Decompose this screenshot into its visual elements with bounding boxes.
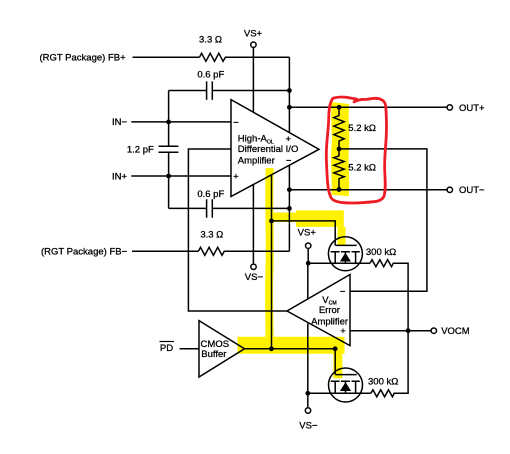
svg-text:IN−: IN− [112, 117, 128, 128]
svg-text:0.6 pF: 0.6 pF [197, 189, 224, 200]
svg-text:Buffer: Buffer [201, 349, 226, 360]
svg-text:3.3 Ω: 3.3 Ω [199, 35, 222, 46]
svg-text:3.3 Ω: 3.3 Ω [200, 230, 223, 241]
svg-text:VS+: VS+ [298, 228, 317, 239]
svg-text:−: − [286, 156, 292, 167]
svg-text:VS+: VS+ [244, 29, 263, 40]
svg-text:Differential I/O: Differential I/O [238, 144, 299, 155]
svg-text:1.2 pF: 1.2 pF [127, 144, 154, 155]
svg-text:300 kΩ: 300 kΩ [368, 376, 398, 387]
svg-text:Amplifier: Amplifier [238, 155, 275, 166]
svg-text:5.2 kΩ: 5.2 kΩ [348, 123, 376, 134]
svg-text:−: − [340, 287, 346, 298]
svg-text:+: + [286, 134, 292, 145]
svg-text:+: + [233, 171, 239, 182]
svg-text:(RGT Package) FB+: (RGT Package) FB+ [40, 52, 127, 63]
svg-text:PD: PD [160, 343, 173, 354]
svg-text:+: + [340, 326, 346, 337]
svg-text:−: − [233, 117, 239, 128]
svg-text:OUT+: OUT+ [459, 103, 485, 114]
svg-text:Error: Error [319, 305, 340, 316]
svg-text:5.2 kΩ: 5.2 kΩ [348, 162, 376, 173]
svg-text:VOCM: VOCM [441, 326, 470, 337]
svg-text:VS−: VS− [245, 272, 264, 283]
svg-text:IN+: IN+ [112, 171, 128, 182]
svg-text:(RGT Package) FB−: (RGT Package) FB− [41, 247, 128, 258]
svg-text:300 kΩ: 300 kΩ [366, 247, 396, 258]
svg-text:OUT−: OUT− [459, 185, 485, 196]
svg-text:0.6 pF: 0.6 pF [197, 70, 224, 81]
svg-text:VS−: VS− [299, 420, 318, 431]
